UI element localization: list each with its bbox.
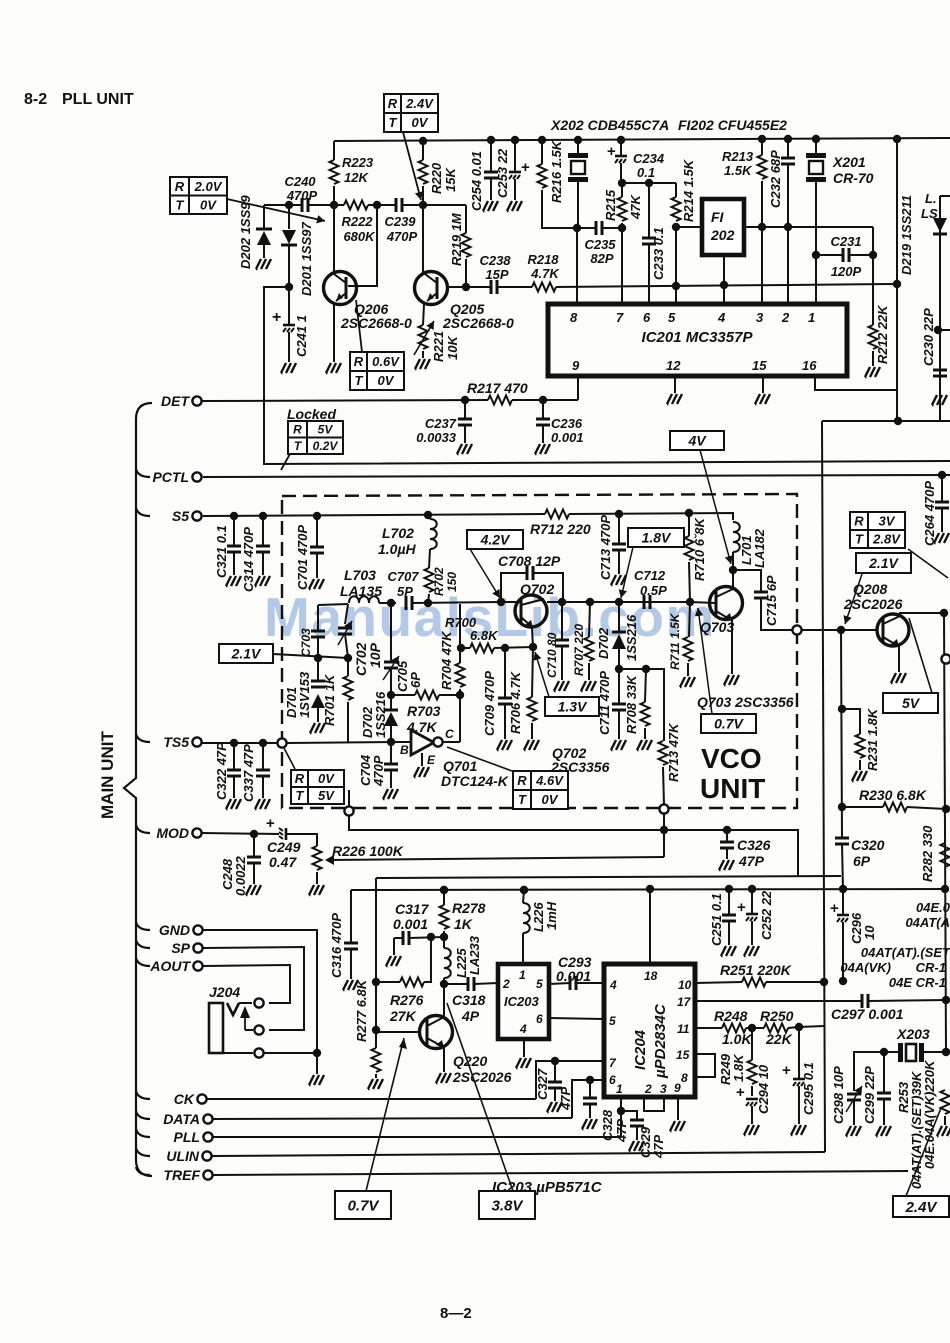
transistor Q205 2SC2668-0: [415, 272, 448, 305]
bracket stub TREF: [136, 1167, 150, 1175]
resistor R282 330: [941, 843, 950, 867]
svg-text:C251 0.1: C251 0.1: [709, 893, 724, 946]
svg-text:TREF: TREF: [163, 1167, 200, 1183]
resistor R706 4.7K: [532, 647, 533, 697]
transistor Q208 2SC2026: [877, 614, 909, 646]
diode D702 1SS216: [390, 695, 392, 710]
capacitor C701 470P: [316, 516, 318, 547]
connector circle VCO right: [792, 625, 801, 634]
resistor R704 47K: [459, 604, 461, 648]
trimmer C702 10P: [345, 604, 348, 624]
varactor D701 1SV153: [317, 658, 319, 681]
resistor R223 12K: [333, 141, 335, 160]
jack contact 3: [254, 1048, 263, 1057]
svg-text:47P: 47P: [738, 853, 765, 869]
svg-text:R221: R221: [431, 331, 446, 362]
svg-text:2.4V: 2.4V: [905, 1199, 939, 1216]
capacitor C234 0.1: [617, 136, 625, 144]
svg-text:C316 470P: C316 470P: [329, 913, 344, 978]
svg-text:15: 15: [752, 358, 767, 373]
svg-text:04E.0: 04E.0: [916, 900, 950, 915]
svg-text:LA135: LA135: [340, 583, 382, 599]
svg-text:0V: 0V: [318, 771, 335, 786]
svg-text:C299 22P: C299 22P: [862, 1066, 877, 1124]
svg-text:C: C: [445, 727, 454, 741]
capacitor C240: [302, 198, 308, 212]
svg-text:11: 11: [677, 1022, 690, 1036]
svg-text:12K: 12K: [344, 170, 369, 185]
svg-text:C703: C703: [299, 628, 313, 657]
svg-text:R282 330: R282 330: [920, 825, 935, 882]
svg-text:8: 8: [570, 310, 578, 325]
wire AOUT: [203, 965, 290, 1003]
svg-text:2SC2668-0: 2SC2668-0: [340, 315, 412, 331]
svg-text:R219 1M: R219 1M: [449, 212, 464, 266]
svg-text:R231 1.8K: R231 1.8K: [865, 707, 880, 771]
svg-text:R277 6.8K: R277 6.8K: [354, 978, 369, 1042]
bracket stub ULIN: [136, 1148, 150, 1156]
pin 16 wire: [815, 376, 897, 390]
svg-text:6: 6: [536, 1012, 543, 1026]
svg-text:R702: R702: [432, 567, 446, 596]
node collector rail: [940, 609, 948, 617]
svg-text:R220: R220: [429, 162, 444, 194]
resistor R222: [344, 201, 368, 210]
svg-text:0V: 0V: [542, 792, 559, 807]
capacitor C329 47P: [620, 1097, 622, 1137]
svg-text:T: T: [176, 197, 185, 212]
svg-text:7: 7: [616, 310, 624, 325]
inductor L225 LA233: [444, 948, 451, 978]
wire to frame: [264, 287, 950, 464]
resistor R218 4.7K: [497, 286, 532, 288]
svg-text:15P: 15P: [485, 267, 508, 282]
resistor R248 1.0K: [695, 1027, 722, 1029]
svg-text:C709 470P: C709 470P: [482, 671, 497, 736]
svg-text:5P: 5P: [397, 584, 413, 599]
svg-text:X201: X201: [832, 154, 866, 170]
svg-text:CR-70: CR-70: [833, 170, 874, 186]
svg-text:Locked: Locked: [287, 406, 336, 422]
capacitor C251 0.1: [728, 889, 730, 915]
svg-text:Q702: Q702: [520, 581, 554, 597]
svg-text:+: +: [607, 143, 616, 160]
wire R226 output: [325, 855, 334, 865]
bracket stub AOUT: [136, 958, 150, 966]
capacitor C248 0.0022: [253, 834, 255, 857]
capacitor C297 0.001: [862, 994, 868, 1008]
svg-text:04E: 04E: [889, 975, 912, 990]
svg-text:C327: C327: [535, 1068, 550, 1100]
wire IC203 pin6 to IC204 pin5: [549, 1018, 604, 1019]
resistor R711: [689, 602, 690, 637]
svg-text:SP: SP: [171, 940, 190, 956]
resistor R249 1.8K: [751, 1028, 753, 1060]
resistor R215 47K: [621, 183, 623, 197]
svg-text:470P: 470P: [371, 755, 386, 787]
trimmer C298 10P: [854, 1052, 884, 1091]
wire top node y=205: [264, 204, 302, 206]
svg-text:R: R: [854, 514, 864, 529]
bracket stub MOD: [136, 825, 150, 833]
svg-text:0.7V: 0.7V: [348, 1197, 381, 1214]
resistor R251 220K: [695, 982, 742, 983]
svg-text:B: B: [400, 743, 409, 757]
resistor R219 1M: [465, 205, 467, 233]
svg-text:S5: S5: [172, 508, 189, 524]
svg-text:1: 1: [808, 310, 815, 325]
svg-text:4.7K: 4.7K: [530, 266, 560, 281]
capacitor C327 47P: [536, 1061, 604, 1099]
svg-text:10: 10: [862, 925, 877, 940]
svg-text:0V: 0V: [200, 197, 217, 212]
svg-text:6.8K: 6.8K: [470, 628, 499, 643]
svg-text:22K: 22K: [765, 1031, 793, 1047]
svg-text:9: 9: [674, 1081, 681, 1095]
svg-text:1: 1: [519, 968, 526, 982]
capacitor C707 5P: [406, 596, 412, 610]
voltage box R 3V / T 2.8V: [850, 512, 905, 548]
svg-text:4.2V: 4.2V: [480, 532, 511, 548]
connector circle TS5 entry: [277, 738, 286, 747]
svg-text:1.8V: 1.8V: [642, 530, 672, 546]
capacitor C231 120P: [816, 254, 843, 256]
svg-text:R701 1K: R701 1K: [322, 673, 337, 726]
svg-text:µPD2834C: µPD2834C: [652, 1003, 669, 1079]
ground Q206 emitter: [326, 363, 341, 373]
small connector right edge: [941, 654, 950, 663]
trimmer C705 6P: [390, 603, 392, 662]
svg-text:5V: 5V: [318, 788, 335, 803]
svg-text:+: +: [782, 1062, 791, 1079]
resistor R710 6.8K: [688, 513, 690, 536]
diode D201 1SS97: [288, 205, 290, 229]
wire y890: [351, 889, 945, 890]
capacitor C230 22P: [933, 370, 947, 376]
crystal X202: [574, 136, 582, 144]
svg-text:150: 150: [445, 572, 459, 592]
svg-text:17: 17: [677, 995, 692, 1009]
svg-text:15: 15: [676, 1048, 690, 1062]
voltage box R 0.6V / T 0V: [350, 352, 404, 390]
svg-text:C320: C320: [851, 837, 885, 853]
inductor L702 1.0uH: [430, 519, 437, 549]
svg-text:R216 1.5K: R216 1.5K: [549, 139, 564, 203]
svg-text:MOD: MOD: [156, 825, 189, 841]
svg-text:+: +: [266, 815, 275, 832]
svg-text:18: 18: [644, 969, 658, 983]
svg-text:Q220: Q220: [453, 1053, 487, 1069]
svg-text:0.6V: 0.6V: [372, 354, 400, 369]
svg-text:C237: C237: [425, 416, 457, 431]
svg-text:10K: 10K: [445, 335, 460, 360]
op-amp IC201 MC3357P: [548, 304, 847, 376]
voltage box R 2.4V / T 0V: [384, 94, 438, 132]
svg-text:C712: C712: [634, 568, 666, 583]
voltage box R 2.0V / T 0V: [170, 177, 227, 214]
capacitor C708 12P loop: [501, 573, 527, 602]
diode D703 1SS216: [618, 602, 620, 632]
resistor R220 15K: [419, 137, 427, 145]
svg-text:4.6V: 4.6V: [535, 773, 564, 788]
svg-text:1.0µH: 1.0µH: [378, 541, 417, 557]
svg-text:UNIT: UNIT: [700, 773, 765, 804]
node C234-R215: [618, 179, 626, 187]
svg-text:C235: C235: [584, 237, 616, 252]
voltage box 0.7V: [701, 714, 756, 733]
bracket stub DATA: [136, 1111, 150, 1119]
inductor L703 LA135: [349, 596, 379, 603]
resistor R700 6.8K: [461, 647, 470, 649]
svg-text:R217 470: R217 470: [467, 380, 528, 396]
svg-text:X202 CDB455C7A: X202 CDB455C7A: [550, 117, 669, 133]
capacitor C712 0.5P (in rail): [644, 595, 650, 609]
node C239-R220-Q205: [419, 201, 427, 209]
svg-text:6P: 6P: [408, 672, 423, 688]
IC204 box uPD2834C: [604, 964, 695, 1097]
svg-text:Q703: Q703: [700, 619, 734, 635]
svg-text:04AT(AT).(SET: 04AT(AT).(SET: [861, 945, 950, 960]
svg-text:16: 16: [802, 358, 817, 373]
svg-text:470P: 470P: [286, 188, 318, 203]
bracket stub PCTL: [136, 469, 150, 477]
svg-text:2SC2026: 2SC2026: [452, 1069, 512, 1085]
svg-text:0V: 0V: [378, 373, 395, 388]
svg-text:PLL: PLL: [174, 1129, 200, 1145]
svg-text:6P: 6P: [853, 853, 871, 869]
svg-text:4: 4: [519, 1022, 527, 1036]
capacitor C326 47P: [726, 830, 728, 842]
svg-text:R704 47K: R704 47K: [439, 630, 454, 690]
svg-text:1SV153: 1SV153: [297, 671, 312, 718]
svg-text:C233 0.1: C233 0.1: [651, 227, 666, 280]
svg-text:3: 3: [756, 310, 764, 325]
transistor Q703 2SC3356: [710, 587, 743, 620]
svg-text:2.1V: 2.1V: [868, 555, 899, 571]
node y285 right: [893, 280, 901, 288]
wire y669: [619, 669, 664, 741]
transistor Q702 2SC3356: [515, 595, 547, 627]
voltage box R 4.6V / T 0V: [513, 771, 568, 809]
svg-text:5: 5: [609, 1014, 616, 1028]
svg-text:04E.04A(VK)220K: 04E.04A(VK)220K: [922, 1059, 937, 1169]
wire TS5: [202, 742, 277, 744]
capacitor C715 6P: [733, 570, 761, 592]
svg-text:27K: 27K: [389, 1008, 417, 1024]
svg-text:8-2: 8-2: [24, 91, 47, 108]
svg-text:R213: R213: [722, 149, 754, 164]
voltage box 3.8V: [479, 1191, 535, 1219]
svg-text:1: 1: [616, 1082, 623, 1096]
svg-text:120P: 120P: [831, 264, 862, 279]
svg-text:04A(VK): 04A(VK): [840, 960, 891, 975]
svg-text:CK: CK: [174, 1091, 195, 1107]
bracket stub S5: [136, 508, 150, 516]
svg-text:X203: X203: [896, 1026, 930, 1042]
voltage box 1.3V: [545, 697, 599, 716]
capacitor C703: [311, 631, 325, 637]
svg-text:47K: 47K: [628, 194, 643, 220]
svg-text:IC204: IC204: [632, 1029, 649, 1070]
capacitor C235 82P: [596, 221, 602, 235]
svg-text:R223: R223: [342, 155, 374, 170]
inductor L701 LA182: [733, 522, 740, 552]
svg-text:R706 4.7K: R706 4.7K: [508, 670, 523, 734]
wire y=421: [822, 420, 950, 422]
svg-text:T: T: [855, 532, 864, 547]
capacitor C711 470P: [618, 669, 620, 704]
svg-text:IC203: IC203: [504, 994, 539, 1009]
wire CK: [207, 1098, 536, 1100]
resistor R277 6.8K: [375, 1030, 377, 1048]
wire PLL: [213, 1136, 621, 1138]
svg-text:0.001: 0.001: [556, 968, 591, 984]
svg-text:+: +: [521, 159, 530, 176]
resistor R214 1.5K / pin5 wire: [675, 183, 677, 197]
svg-text:LS: LS: [921, 206, 938, 221]
capacitor C328 47P: [572, 1080, 604, 1118]
svg-text:1.0K: 1.0K: [722, 1031, 752, 1047]
diode D202 1SS99: [263, 205, 265, 229]
voltage box 2.1V (Q208): [856, 553, 911, 573]
svg-text:C317: C317: [395, 901, 430, 917]
svg-text:C254 0.01: C254 0.01: [469, 151, 484, 211]
capacitor C253 22: [511, 136, 519, 144]
svg-text:202: 202: [710, 227, 735, 243]
svg-text:2: 2: [644, 1082, 652, 1096]
svg-text:R276: R276: [390, 992, 424, 1008]
wire GND: [203, 930, 317, 1053]
jack switch arrow: [244, 1012, 246, 1030]
svg-text:PCTL: PCTL: [152, 469, 189, 485]
svg-text:1SS216: 1SS216: [373, 691, 388, 738]
svg-text:680K: 680K: [343, 229, 376, 244]
svg-text:MAIN UNIT: MAIN UNIT: [98, 731, 117, 819]
svg-text:R218: R218: [527, 252, 559, 267]
svg-text:VCO: VCO: [701, 743, 762, 774]
svg-text:C337 47P: C337 47P: [241, 744, 256, 802]
svg-text:5V: 5V: [902, 695, 921, 711]
svg-text:T: T: [296, 788, 305, 803]
svg-text:C326: C326: [737, 837, 771, 853]
wire DET-R217-pin9: [202, 400, 488, 401]
svg-text:R708 33K: R708 33K: [624, 674, 639, 734]
svg-text:3: 3: [660, 1082, 667, 1096]
svg-text:D219 1SS211: D219 1SS211: [899, 195, 914, 275]
diode D219 1SS211: [940, 195, 950, 197]
node Q703 collector: [729, 566, 737, 574]
crystal X201 CR-70: [812, 135, 820, 143]
svg-text:CR-1: CR-1: [916, 960, 946, 975]
node R223 junction: [330, 201, 338, 209]
wire MOD: [202, 833, 279, 834]
resistor R226 100K: [313, 846, 322, 870]
svg-text:12: 12: [666, 358, 681, 373]
svg-text:R251 220K: R251 220K: [720, 962, 792, 978]
voltage box R 0V / T 5V: [291, 770, 344, 804]
svg-text:1.8K: 1.8K: [731, 1053, 746, 1082]
pin2-3 stub box: [644, 1097, 664, 1111]
svg-text:D702: D702: [596, 627, 611, 659]
svg-text:GND: GND: [159, 922, 190, 938]
pin7 wire: [621, 228, 623, 304]
node R222-C239: [373, 201, 381, 209]
svg-text:5: 5: [668, 310, 676, 325]
svg-text:8: 8: [681, 1071, 688, 1085]
svg-text:C294 10: C294 10: [756, 1064, 771, 1114]
svg-text:C708 12P: C708 12P: [498, 553, 561, 569]
svg-text:5: 5: [536, 977, 543, 991]
svg-text:2.4V: 2.4V: [405, 96, 434, 111]
svg-text:C707: C707: [387, 569, 419, 584]
svg-text:R: R: [517, 773, 527, 788]
svg-text:0V: 0V: [412, 115, 429, 130]
wire VCO out vertical: [663, 813, 665, 857]
svg-text:R: R: [388, 96, 398, 111]
node Q702 base: [497, 598, 505, 606]
svg-text:R212 22K: R212 22K: [875, 304, 890, 364]
svg-text:R711 1.5K: R711 1.5K: [668, 612, 682, 670]
resistor R703 4.7K: [391, 694, 415, 696]
capacitor C314 470P: [262, 516, 264, 546]
wire DATA: [213, 1118, 572, 1119]
svg-text:+: +: [736, 1084, 745, 1101]
svg-text:R712 220: R712 220: [530, 521, 591, 537]
svg-text:1mH: 1mH: [544, 901, 559, 930]
resistor R212 22K: [872, 255, 874, 325]
resistor R216 1.5K: [538, 136, 546, 144]
svg-text:FI202 CFU455E2: FI202 CFU455E2: [678, 117, 787, 133]
svg-text:C264 470P: C264 470P: [922, 481, 937, 546]
svg-text:2.0V: 2.0V: [194, 179, 223, 194]
wire top rail y=140: [334, 138, 950, 141]
svg-text:0.001: 0.001: [551, 430, 584, 445]
svg-text:L702: L702: [382, 525, 414, 541]
node D201-C241: [285, 283, 293, 291]
svg-text:1K: 1K: [454, 916, 473, 932]
svg-text:C710 80: C710 80: [545, 632, 559, 678]
svg-text:C298 10P: C298 10P: [831, 1066, 846, 1124]
capacitor C320 6P: [835, 838, 849, 844]
resistor R708 33K: [645, 669, 646, 702]
vertical rail x=897: [893, 135, 901, 143]
svg-text:IC201 MC3357P: IC201 MC3357P: [642, 329, 754, 346]
transistor Q220 2SC2026: [376, 1031, 419, 1033]
svg-text:C252 22: C252 22: [759, 890, 774, 940]
svg-text:C715 6P: C715 6P: [764, 575, 779, 626]
voltage box 2.1V: [219, 644, 273, 663]
node R703: [387, 691, 395, 699]
transistor Q206 2SC2668-0: [324, 272, 357, 305]
IC203 box: [498, 964, 549, 1039]
svg-text:4: 4: [717, 310, 726, 325]
capacitor C299 22P: [883, 1052, 885, 1093]
svg-text:2SC2668-0: 2SC2668-0: [442, 315, 514, 331]
voltage box 4V: [670, 431, 724, 450]
svg-text:0.47: 0.47: [269, 854, 297, 870]
pin8 wire: [576, 228, 578, 304]
node Q208 base: [837, 626, 845, 634]
svg-text:C713 470P: C713 470P: [598, 515, 613, 580]
jack contact 2: [254, 1025, 263, 1034]
svg-text:C318: C318: [452, 992, 486, 1008]
capacitor C295 0.1: [798, 1027, 800, 1079]
svg-text:C321 0.1: C321 0.1: [214, 525, 229, 578]
bracket stub GND: [136, 922, 150, 930]
capacitor C316 470P: [350, 890, 352, 943]
resistor R231 1.8K: [842, 709, 860, 734]
svg-text:C314 470P: C314 470P: [241, 527, 256, 592]
